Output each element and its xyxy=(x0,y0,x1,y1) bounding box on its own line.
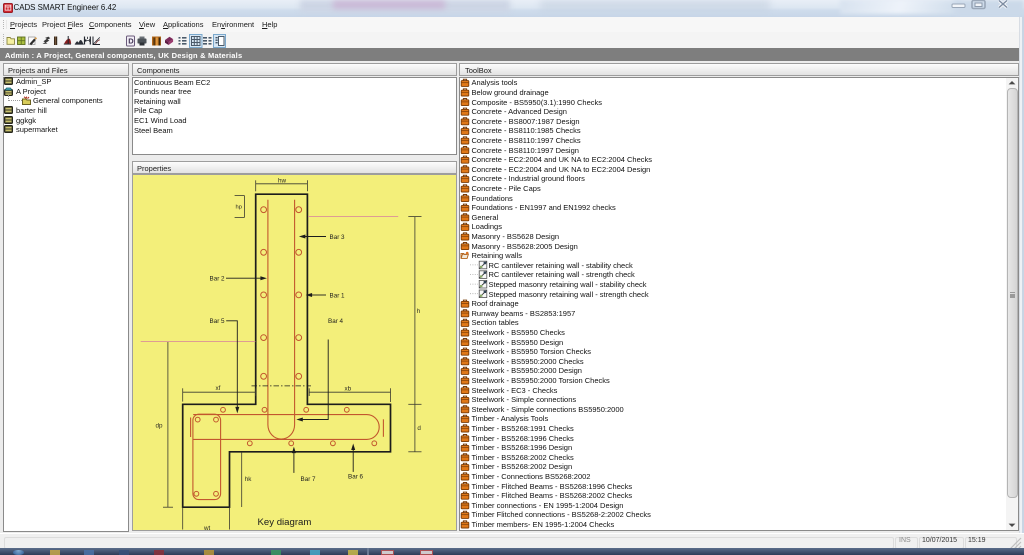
svg-text:Key diagram: Key diagram xyxy=(258,517,312,528)
menu bar xyxy=(0,17,1024,32)
Bar 1 label and leader xyxy=(306,292,345,299)
key cage corner circles xyxy=(194,417,218,496)
tree: supermarket xyxy=(4,125,13,133)
toolbar xyxy=(0,32,1024,49)
svg-text:wt: wt xyxy=(203,525,211,530)
Bar 6 label and leader xyxy=(348,444,364,481)
svg-text:hw: hw xyxy=(278,177,287,184)
svg-text:Bar 5: Bar 5 xyxy=(210,318,226,325)
hk dimension xyxy=(241,452,243,507)
view grid selected xyxy=(190,35,203,48)
printer dark xyxy=(138,37,147,46)
folder new xyxy=(7,38,15,45)
properties yellow canvas xyxy=(132,174,457,531)
bending chart xyxy=(64,36,71,44)
toolbox list xyxy=(459,77,1019,531)
window title bar xyxy=(0,0,1024,17)
bar end hook xyxy=(382,419,384,437)
toolbox header xyxy=(459,63,1019,76)
svg-text:d: d xyxy=(417,425,421,432)
right ground line (pale) xyxy=(308,216,398,218)
view panel selected xyxy=(214,35,226,48)
scrollbar down arrow xyxy=(1006,519,1018,530)
wall and footing outline xyxy=(183,194,391,507)
svg-text:Bar 1: Bar 1 xyxy=(330,292,346,299)
tree connector xyxy=(8,95,10,101)
retaining wall key diagram xyxy=(133,175,456,530)
hp dimension bracket xyxy=(235,196,245,218)
status bar xyxy=(0,533,1024,549)
hw dimension xyxy=(256,180,308,191)
Bar 5 label and leader xyxy=(210,318,240,413)
view list 1 xyxy=(179,37,187,45)
svg-text:hp: hp xyxy=(236,205,242,211)
toolbox scrollbar xyxy=(1006,78,1018,530)
svg-text:dp: dp xyxy=(156,422,164,429)
footing top row circles xyxy=(221,407,350,412)
components list xyxy=(132,77,457,155)
background window bleed-through blobs xyxy=(300,0,510,12)
tree: ggkgk xyxy=(4,116,13,124)
red book xyxy=(165,37,173,45)
taskbar xyxy=(0,548,1024,555)
graph axes xyxy=(93,37,100,45)
wt extension lines (cut off) xyxy=(183,507,230,529)
admin bar xyxy=(0,48,1024,61)
svg-text:xf: xf xyxy=(216,385,221,392)
view details xyxy=(203,37,212,45)
footing main bars with end cap xyxy=(193,415,379,440)
footing bottom row circles xyxy=(247,441,376,446)
svg-text:h: h xyxy=(417,308,421,315)
xf dimension xyxy=(183,388,256,401)
double hump xyxy=(75,40,84,44)
svg-text:D: D xyxy=(128,37,134,46)
h and d dimension line xyxy=(408,217,421,452)
centreline dash-dot xyxy=(252,385,312,387)
svg-text:Bar 2: Bar 2 xyxy=(210,276,226,283)
svg-text:Bar 4: Bar 4 xyxy=(328,318,344,325)
svg-text:xb: xb xyxy=(345,386,352,393)
svg-text:hk: hk xyxy=(245,476,253,483)
left panel list xyxy=(3,77,129,532)
left panel header xyxy=(3,63,129,76)
dp dimension line xyxy=(163,342,173,507)
taskbar icon blobs xyxy=(13,550,24,555)
properties header xyxy=(132,161,457,174)
key bar end stub xyxy=(190,418,192,438)
svg-text:Bar 6: Bar 6 xyxy=(348,473,364,480)
tree: A Project xyxy=(4,87,13,96)
resize grip xyxy=(1008,537,1022,549)
library building xyxy=(152,37,161,46)
tree: General components xyxy=(22,96,31,105)
xb dimension xyxy=(309,388,390,402)
left ground line (pale) xyxy=(141,341,256,343)
Bar 4 label and leader xyxy=(296,318,343,421)
svg-text:Bar 3: Bar 3 xyxy=(330,234,346,241)
right window frame xyxy=(1019,17,1024,533)
Bar 2 label and leader xyxy=(210,276,267,283)
tree: barter hill xyxy=(4,106,13,114)
stamp dark xyxy=(43,37,51,44)
svg-text:Bar 7: Bar 7 xyxy=(301,476,317,483)
toolbox items xyxy=(459,78,1005,530)
Bar 3 label and leader xyxy=(299,234,345,241)
window buttons xyxy=(945,0,1015,10)
scrollbar thumb xyxy=(1007,88,1018,498)
wall link circles right column xyxy=(296,207,302,379)
tree: Admin_SP xyxy=(4,77,13,85)
wall link circles left column xyxy=(261,207,267,379)
edit pencil xyxy=(29,37,38,45)
D document xyxy=(127,36,135,46)
section bars xyxy=(85,37,91,45)
key cage (rounded rect) xyxy=(193,414,221,499)
components header xyxy=(132,63,457,76)
wall bars U xyxy=(268,200,295,439)
column bar xyxy=(54,37,57,46)
app icon (red) xyxy=(3,3,13,13)
scrollbar up arrow xyxy=(1006,78,1018,88)
Bar 7 label and leader xyxy=(292,447,316,483)
green grid xyxy=(18,37,26,45)
